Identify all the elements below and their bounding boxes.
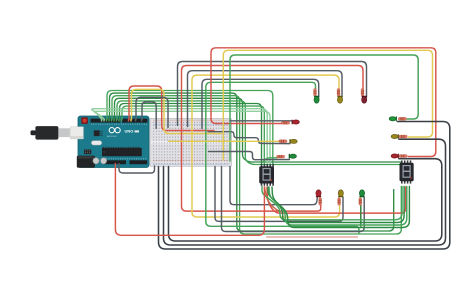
wire gray loop 2	[142, 102, 156, 129]
Arduino digital header left	[91, 119, 121, 123]
wire seg-g	[122, 106, 264, 164]
resistor R10	[398, 117, 406, 120]
wire green to LED-L3	[264, 158, 278, 162]
LED red R3	[391, 154, 399, 159]
resistor R12	[399, 155, 407, 158]
Arduino USB cable plug	[31, 126, 70, 140]
Arduino logo	[107, 128, 133, 139]
Arduino analog header	[130, 160, 148, 164]
LED red B1	[316, 190, 321, 197]
svg-text:ARDUINO: ARDUINO	[107, 135, 117, 138]
svg-text:UNO: UNO	[125, 128, 134, 133]
wire loop gray A	[159, 122, 450, 250]
wire bus green 4	[272, 187, 409, 228]
wire seg-e busB	[117, 101, 404, 165]
LED yellow R2	[391, 134, 399, 139]
wire bus green 3	[269, 187, 407, 226]
resistor R7	[319, 198, 322, 206]
LED yellow L2	[289, 139, 297, 144]
wire gray to LED-T2	[188, 71, 343, 127]
resistor R5	[337, 89, 340, 97]
wire red loop	[129, 86, 214, 131]
wire bus green 2	[268, 187, 404, 223]
LED dark-red T3	[362, 96, 367, 103]
seven-segment display DSP2	[400, 160, 414, 183]
wire GND pale 2	[94, 111, 270, 164]
Arduino barrel jack	[77, 156, 95, 168]
wire seg-f	[120, 104, 262, 165]
resistor R9	[359, 198, 362, 206]
wire green top to LED-R1	[230, 55, 418, 161]
Arduino pin labels bottom	[104, 158, 147, 160]
wire loop gray B	[164, 139, 446, 245]
wire orange pin curve	[265, 187, 279, 211]
wire red 5V arduino	[115, 164, 264, 236]
LED green T1	[314, 96, 319, 103]
LED green B3	[359, 190, 364, 197]
Arduino USB port	[70, 127, 83, 139]
Arduino digital header right	[122, 119, 148, 123]
wire seg-c long	[112, 96, 401, 234]
wire gray to LED-T3	[178, 62, 367, 126]
Arduino wire stubs top	[102, 119, 142, 122]
LED red L1	[292, 120, 300, 125]
wire seg-b long	[110, 93, 394, 231]
seven-segment display DSP1	[260, 164, 274, 186]
wire seg-d busA	[115, 98, 402, 164]
Arduino ICSP header	[84, 150, 91, 155]
wire seg-a	[107, 91, 273, 165]
wire yellow to LED-L2	[169, 140, 280, 142]
resistor R2	[279, 140, 287, 143]
wire gray LED-B2 return	[215, 167, 343, 222]
LED green L3	[289, 154, 297, 159]
Arduino TX RX label	[135, 130, 140, 132]
Arduino Uno board	[78, 116, 149, 168]
wire yellow top to LED-R2	[223, 50, 432, 160]
resistor R3	[277, 155, 285, 158]
Arduino capacitor C1	[93, 158, 99, 164]
wire red disp to disp	[267, 187, 406, 213]
wire green to LED-T1 res	[206, 82, 359, 233]
Arduino ATmega chip	[102, 147, 142, 157]
wire gray to LED-T1	[202, 79, 319, 128]
LED green R1	[389, 116, 397, 121]
resistor R4	[361, 89, 364, 97]
wire 5V pale 1	[92, 109, 267, 165]
Arduino power header	[104, 160, 126, 164]
wire yellow to LED-T2 res	[192, 75, 340, 217]
Arduino reset button	[81, 117, 88, 124]
wire loop gray C	[169, 159, 442, 241]
wire gray LED-L1 cathode	[230, 120, 292, 122]
wire green LED-B3 lead	[360, 206, 362, 227]
wire gray S to LED2	[208, 132, 290, 144]
Arduino pin labels top	[91, 123, 147, 125]
resistor R8	[338, 198, 341, 206]
Arduino capacitor C2	[101, 158, 107, 164]
wire gray LED-L3 cathode	[209, 152, 290, 160]
breadboard	[150, 118, 232, 166]
wire yellow loop	[132, 89, 222, 133]
wire gray LED-B3 return	[222, 167, 365, 232]
Arduino crystal	[91, 141, 101, 145]
resistor R1	[282, 121, 290, 124]
LED yellow T2	[337, 96, 342, 103]
wire gray GND U	[119, 164, 155, 174]
wire pink faint	[267, 236, 358, 238]
resistor R6	[314, 89, 317, 97]
wire bus green 1	[262, 187, 402, 220]
wire red top to LED-R3	[211, 48, 436, 157]
Arduino USB interface chip	[94, 130, 103, 136]
resistor R11	[399, 135, 407, 138]
wire red to LED-T3 res	[182, 66, 364, 212]
wire gray LED-B1 return	[230, 167, 317, 205]
LED yellow B2	[338, 190, 343, 197]
wire gray loop 1	[136, 97, 168, 127]
